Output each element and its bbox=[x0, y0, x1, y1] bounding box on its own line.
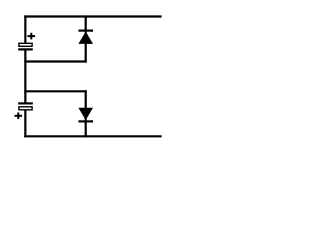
diode D1 triangle bbox=[78, 32, 93, 44]
capacitor C2 plus sign bbox=[15, 113, 23, 120]
wire top rail bbox=[24, 15, 161, 17]
capacitor C2 top plate (bar) bbox=[18, 102, 33, 104]
wire lower middle rail bbox=[24, 90, 87, 92]
diode D2 cathode bar bbox=[78, 120, 93, 122]
capacitor C1 bottom plate (bar) bbox=[18, 48, 33, 50]
wire left column lower segment bbox=[24, 110, 26, 137]
wire diode D1 branch bbox=[85, 15, 87, 62]
capacitor C2 bottom plate (box) bbox=[19, 107, 32, 110]
wire left column upper segment bbox=[24, 15, 26, 43]
wire upper middle rail bbox=[24, 60, 87, 62]
diode D2 triangle bbox=[78, 108, 93, 120]
capacitor C1 plus sign bbox=[28, 33, 36, 40]
wire left column middle segment bbox=[24, 50, 26, 104]
wire bottom rail bbox=[24, 135, 161, 137]
wire diode D2 branch bbox=[85, 90, 87, 137]
diode D1 cathode bar bbox=[78, 30, 93, 32]
capacitor C1 top plate (box) bbox=[19, 43, 32, 46]
